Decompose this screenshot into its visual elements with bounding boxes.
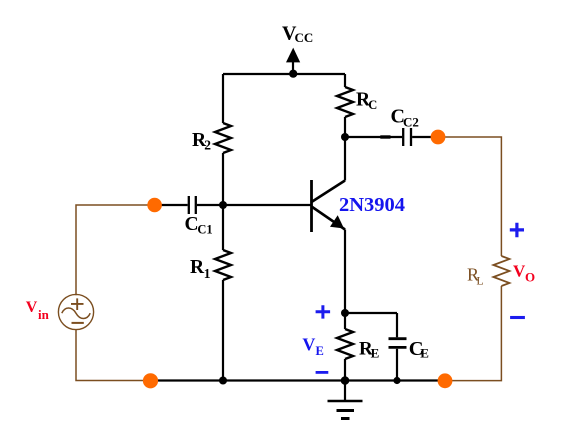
svg-text:L: L	[476, 274, 483, 288]
svg-text:1: 1	[204, 266, 211, 281]
svg-text:C: C	[368, 98, 377, 112]
svg-text:O: O	[525, 270, 535, 285]
svg-text:2N3904: 2N3904	[339, 194, 405, 216]
svg-text:2: 2	[204, 138, 211, 153]
svg-text:C1: C1	[197, 223, 212, 237]
svg-text:in: in	[38, 307, 50, 322]
svg-text:E: E	[316, 344, 324, 358]
svg-text:R: R	[190, 257, 205, 278]
svg-text:E: E	[420, 346, 429, 361]
svg-text:V: V	[302, 334, 315, 354]
svg-text:V: V	[26, 299, 38, 316]
svg-text:E: E	[371, 346, 380, 361]
svg-text:CC: CC	[295, 30, 314, 45]
svg-text:C2: C2	[403, 115, 419, 130]
